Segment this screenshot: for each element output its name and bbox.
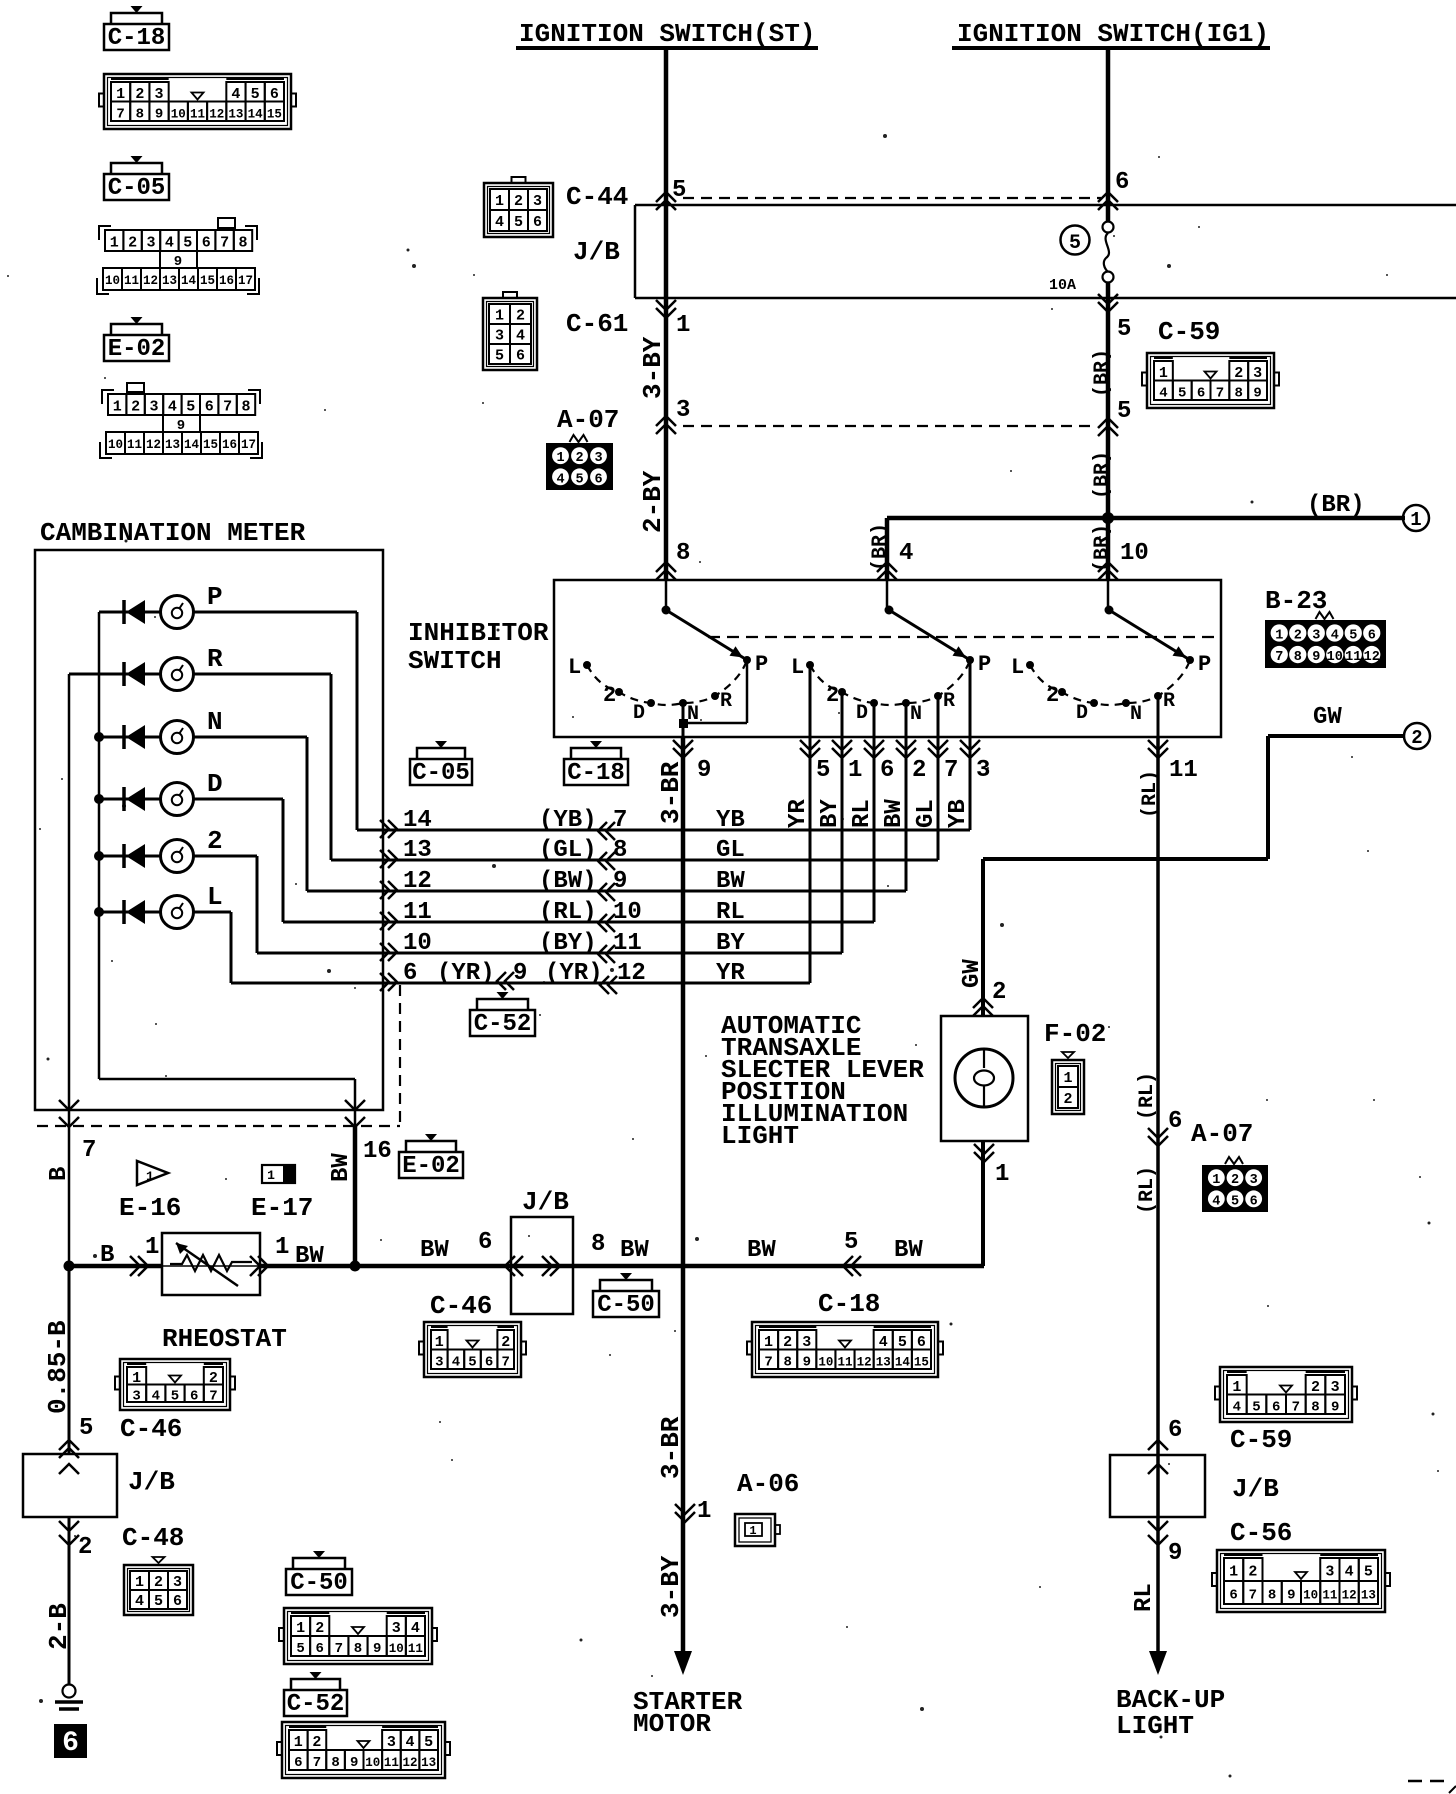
svg-text:6: 6: [485, 1354, 493, 1370]
svg-text:P: P: [755, 652, 768, 677]
svg-text:10: 10: [818, 1355, 833, 1369]
svg-text:RL: RL: [1131, 1583, 1158, 1612]
svg-text:15: 15: [203, 438, 218, 452]
svg-text:7: 7: [116, 106, 124, 122]
svg-text:2: 2: [603, 683, 616, 708]
svg-text:14: 14: [248, 107, 264, 121]
svg-text:6: 6: [316, 1641, 324, 1657]
svg-text:3-BR: 3-BR: [656, 1416, 686, 1479]
svg-text:12: 12: [143, 274, 158, 288]
svg-text:1: 1: [495, 193, 504, 210]
svg-text:YR: YR: [785, 799, 812, 828]
svg-text:7: 7: [1216, 385, 1224, 401]
svg-text:3: 3: [1325, 1564, 1334, 1581]
svg-text:LIGHT: LIGHT: [721, 1121, 799, 1151]
svg-text:C-50: C-50: [290, 1570, 348, 1597]
svg-text:E-16: E-16: [119, 1193, 181, 1223]
svg-text:5: 5: [468, 1354, 476, 1370]
svg-text:2: 2: [1046, 683, 1059, 708]
svg-text:5: 5: [424, 1734, 433, 1751]
svg-text:14: 14: [403, 807, 432, 834]
svg-text:1: 1: [749, 1524, 756, 1538]
svg-text:YR: YR: [716, 960, 745, 987]
svg-text:5: 5: [1117, 316, 1131, 343]
svg-text:6: 6: [516, 348, 525, 365]
svg-text:8: 8: [136, 106, 144, 122]
svg-text:BY: BY: [716, 930, 745, 957]
svg-text:0.85-B: 0.85-B: [43, 1320, 73, 1414]
svg-text:11: 11: [613, 930, 642, 957]
svg-text:17: 17: [238, 274, 253, 288]
svg-text:5: 5: [251, 86, 260, 103]
svg-text:6: 6: [190, 1388, 198, 1404]
svg-text:1: 1: [113, 399, 122, 416]
svg-text:11: 11: [1345, 650, 1361, 665]
svg-text:3: 3: [1253, 365, 1262, 382]
svg-text:1: 1: [1212, 1173, 1220, 1188]
svg-text:4: 4: [168, 399, 177, 416]
svg-text:12: 12: [209, 107, 224, 121]
svg-text:IGNITION SWITCH(ST): IGNITION SWITCH(ST): [519, 19, 815, 49]
svg-text:9: 9: [1287, 1588, 1295, 1604]
svg-text:C-46: C-46: [120, 1414, 182, 1444]
svg-text:A-07: A-07: [557, 405, 619, 435]
svg-text:7: 7: [1249, 1588, 1257, 1604]
svg-text:13: 13: [1361, 1589, 1376, 1603]
svg-text:6: 6: [403, 960, 417, 987]
svg-text:9: 9: [803, 1354, 811, 1370]
svg-text:13: 13: [876, 1355, 891, 1369]
svg-text:8: 8: [1311, 1399, 1319, 1415]
svg-text:(RL): (RL): [539, 899, 597, 926]
svg-text:3: 3: [173, 1574, 182, 1591]
svg-text:N: N: [910, 703, 922, 726]
svg-text:6: 6: [205, 399, 214, 416]
svg-text:9: 9: [1253, 385, 1261, 401]
svg-text:BY: BY: [817, 799, 844, 828]
svg-text:1: 1: [697, 1498, 711, 1525]
svg-text:7: 7: [335, 1641, 343, 1657]
svg-text:D: D: [856, 702, 868, 725]
svg-text:5: 5: [154, 1593, 163, 1610]
svg-text:6: 6: [202, 235, 211, 252]
svg-text:10: 10: [613, 899, 642, 926]
svg-text:1: 1: [764, 1334, 773, 1351]
svg-text:INHIBITOR: INHIBITOR: [408, 618, 549, 648]
svg-text:BW: BW: [328, 1153, 355, 1182]
svg-text:4: 4: [1212, 1194, 1220, 1209]
svg-text:1: 1: [116, 86, 125, 103]
svg-text:2: 2: [135, 86, 144, 103]
svg-text:BW: BW: [420, 1237, 449, 1264]
svg-text:GL: GL: [716, 837, 745, 864]
svg-text:YB: YB: [716, 807, 745, 834]
svg-text:3: 3: [392, 1620, 401, 1637]
svg-text:1: 1: [135, 1574, 144, 1591]
svg-text:12: 12: [617, 960, 646, 987]
svg-text:IGNITION SWITCH(IG1): IGNITION SWITCH(IG1): [957, 19, 1269, 49]
svg-text:3: 3: [435, 1354, 443, 1370]
svg-text:(RL): (RL): [1136, 1072, 1159, 1120]
svg-text:4: 4: [411, 1620, 420, 1637]
svg-text:2: 2: [207, 826, 223, 856]
svg-text:7: 7: [501, 1354, 509, 1370]
svg-text:4: 4: [231, 86, 240, 103]
svg-text:1: 1: [1229, 1564, 1238, 1581]
svg-text:4: 4: [879, 1334, 888, 1351]
svg-text:L: L: [1011, 655, 1024, 680]
svg-text:12: 12: [857, 1355, 872, 1369]
svg-text:C-48: C-48: [122, 1523, 184, 1553]
svg-text:2: 2: [516, 308, 525, 325]
svg-text:2: 2: [1248, 1564, 1257, 1581]
svg-text:4: 4: [556, 472, 564, 487]
svg-text:6: 6: [1168, 1417, 1182, 1444]
svg-text:8: 8: [354, 1641, 362, 1657]
svg-text:14: 14: [895, 1355, 911, 1369]
svg-text:BW: BW: [716, 868, 745, 895]
svg-text:3-BY: 3-BY: [656, 1555, 686, 1618]
svg-text:N: N: [1130, 703, 1142, 726]
svg-text:2: 2: [1231, 1173, 1239, 1188]
svg-text:1: 1: [275, 1234, 289, 1261]
svg-text:15: 15: [267, 107, 282, 121]
svg-text:14: 14: [184, 438, 200, 452]
svg-text:F-02: F-02: [1044, 1019, 1106, 1049]
svg-text:16: 16: [363, 1138, 392, 1165]
svg-text:9: 9: [1312, 650, 1320, 665]
svg-text:8: 8: [238, 235, 247, 252]
svg-text:3-BY: 3-BY: [638, 336, 668, 399]
svg-text:7: 7: [223, 399, 232, 416]
svg-text:8: 8: [241, 399, 250, 416]
svg-text:4: 4: [1233, 1399, 1241, 1415]
svg-text:BW: BW: [620, 1237, 649, 1264]
svg-text:3: 3: [146, 235, 155, 252]
svg-text:2: 2: [1234, 365, 1243, 382]
svg-text:E-02: E-02: [108, 336, 166, 363]
svg-text:2: 2: [783, 1334, 792, 1351]
svg-text:1: 1: [294, 1734, 303, 1751]
svg-text:1: 1: [1232, 1379, 1241, 1396]
svg-text:4: 4: [495, 214, 504, 231]
svg-text:5: 5: [514, 214, 523, 231]
svg-text:B: B: [100, 1242, 114, 1269]
svg-text:2: 2: [128, 235, 137, 252]
svg-text:(RL): (RL): [1136, 1166, 1159, 1214]
svg-text:1: 1: [1275, 628, 1283, 643]
svg-text:(BR): (BR): [1091, 349, 1114, 397]
svg-text:BW: BW: [881, 799, 908, 828]
svg-text:J/B: J/B: [1232, 1474, 1279, 1504]
svg-text:R: R: [207, 644, 223, 674]
svg-text:6: 6: [1168, 1108, 1182, 1135]
svg-text:SWITCH: SWITCH: [408, 646, 502, 676]
svg-text:3: 3: [155, 86, 164, 103]
svg-text:RL: RL: [716, 899, 745, 926]
svg-text:11: 11: [384, 1756, 399, 1770]
svg-text:(BY): (BY): [539, 930, 597, 957]
svg-text:2: 2: [312, 1734, 321, 1751]
svg-text:10A: 10A: [1049, 277, 1076, 294]
svg-text:11: 11: [403, 899, 432, 926]
svg-text:R: R: [720, 690, 732, 713]
svg-text:8: 8: [1235, 385, 1243, 401]
svg-text:P: P: [978, 652, 991, 677]
svg-text:3: 3: [132, 1388, 140, 1404]
svg-text:BW: BW: [295, 1243, 324, 1270]
svg-text:N: N: [207, 707, 223, 737]
svg-text:D: D: [207, 769, 223, 799]
svg-text:3-BR: 3-BR: [656, 761, 686, 824]
svg-text:4: 4: [165, 235, 174, 252]
svg-text:6: 6: [1250, 1194, 1258, 1209]
svg-text:8: 8: [613, 837, 627, 864]
svg-text:6: 6: [1197, 385, 1205, 401]
svg-text:4: 4: [135, 1593, 144, 1610]
svg-text:5: 5: [1349, 628, 1357, 643]
svg-text:3: 3: [976, 757, 990, 784]
svg-text:1: 1: [267, 1168, 275, 1183]
svg-text:C-18: C-18: [108, 25, 166, 52]
svg-text:7: 7: [764, 1354, 772, 1370]
svg-text:3: 3: [676, 397, 690, 424]
svg-text:3: 3: [802, 1334, 811, 1351]
svg-text:7: 7: [209, 1388, 217, 1404]
svg-text:5: 5: [296, 1641, 304, 1657]
svg-text:10: 10: [403, 930, 432, 957]
svg-text:11: 11: [127, 438, 142, 452]
svg-text:9: 9: [697, 757, 711, 784]
svg-text:YB: YB: [945, 799, 972, 828]
svg-text:5: 5: [898, 1334, 907, 1351]
svg-text:2: 2: [315, 1620, 324, 1637]
svg-text:LIGHT: LIGHT: [1116, 1711, 1194, 1741]
svg-text:C-59: C-59: [1158, 317, 1220, 347]
svg-text:8: 8: [331, 1755, 339, 1771]
svg-text:10: 10: [1303, 1589, 1318, 1603]
svg-text:B: B: [46, 1167, 73, 1181]
svg-text:8: 8: [1268, 1588, 1276, 1604]
svg-text:11: 11: [124, 274, 139, 288]
svg-text:11: 11: [190, 107, 205, 121]
svg-text:7: 7: [1292, 1399, 1300, 1415]
svg-text:16: 16: [219, 274, 234, 288]
svg-text:B-23: B-23: [1265, 586, 1327, 616]
svg-text:11: 11: [408, 1642, 423, 1656]
svg-text:7: 7: [313, 1755, 321, 1771]
svg-text:5: 5: [844, 1229, 858, 1256]
svg-text:C-46: C-46: [430, 1291, 492, 1321]
svg-text:9: 9: [155, 106, 163, 122]
svg-text:1: 1: [1410, 509, 1421, 531]
svg-text:MOTOR: MOTOR: [633, 1709, 711, 1739]
svg-text:(BR): (BR): [1307, 492, 1365, 519]
svg-text:1: 1: [495, 308, 504, 325]
svg-text:6: 6: [270, 86, 279, 103]
svg-text:GW: GW: [959, 959, 986, 988]
svg-text:2: 2: [501, 1334, 510, 1351]
svg-text:E-17: E-17: [251, 1193, 313, 1223]
svg-text:2: 2: [78, 1534, 92, 1561]
svg-text:P: P: [1198, 652, 1211, 677]
svg-text:6: 6: [917, 1334, 926, 1351]
svg-text:3: 3: [149, 399, 158, 416]
svg-text:C-61: C-61: [566, 309, 628, 339]
svg-text:13: 13: [403, 837, 432, 864]
svg-text:6: 6: [294, 1755, 302, 1771]
svg-text:2: 2: [826, 683, 839, 708]
svg-text:R: R: [1163, 690, 1175, 713]
svg-text:(YB): (YB): [539, 807, 597, 834]
svg-text:5: 5: [575, 472, 583, 487]
svg-text:L: L: [568, 655, 581, 680]
svg-text:13: 13: [421, 1756, 436, 1770]
svg-text:8: 8: [1294, 650, 1302, 665]
svg-text:12: 12: [1364, 650, 1380, 665]
svg-text:A-07: A-07: [1191, 1119, 1253, 1149]
svg-text:4: 4: [1159, 385, 1167, 401]
svg-text:3: 3: [495, 328, 504, 345]
svg-text:10: 10: [1327, 650, 1343, 665]
svg-text:10: 10: [105, 274, 120, 288]
svg-text:1: 1: [110, 235, 119, 252]
svg-text:7: 7: [944, 757, 958, 784]
svg-text:BW: BW: [894, 1237, 923, 1264]
svg-text:6: 6: [1115, 169, 1129, 196]
svg-text:D: D: [1076, 702, 1088, 725]
svg-text:12: 12: [403, 1756, 418, 1770]
svg-text:1: 1: [1159, 365, 1168, 382]
svg-text:10: 10: [389, 1642, 404, 1656]
svg-text:CAMBINATION METER: CAMBINATION METER: [40, 518, 306, 548]
svg-text:5: 5: [1364, 1564, 1373, 1581]
svg-text:4: 4: [516, 328, 525, 345]
svg-text:C-05: C-05: [412, 760, 470, 787]
svg-text:4: 4: [1331, 628, 1339, 643]
svg-text:10: 10: [108, 438, 123, 452]
svg-text:D: D: [633, 702, 645, 725]
svg-text:(BW): (BW): [539, 868, 597, 895]
svg-text:1: 1: [146, 1169, 154, 1184]
svg-text:10: 10: [171, 107, 186, 121]
svg-text:(GL): (GL): [539, 837, 597, 864]
svg-text:5: 5: [186, 399, 195, 416]
svg-text:5: 5: [1069, 232, 1081, 255]
svg-text:13: 13: [165, 438, 180, 452]
svg-text:L: L: [791, 655, 804, 680]
svg-text:5: 5: [171, 1388, 179, 1404]
svg-text:3: 3: [387, 1734, 396, 1751]
svg-text:9: 9: [513, 960, 527, 987]
svg-text:5: 5: [1117, 398, 1131, 425]
svg-text:6: 6: [1229, 1588, 1237, 1604]
svg-text:8: 8: [783, 1354, 791, 1370]
svg-text:2: 2: [1063, 1091, 1072, 1108]
svg-text:5: 5: [79, 1415, 93, 1442]
svg-text:1: 1: [145, 1234, 159, 1261]
svg-text:5: 5: [1231, 1194, 1239, 1209]
svg-text:L: L: [207, 882, 223, 912]
svg-text:5: 5: [1178, 385, 1186, 401]
svg-text:16: 16: [222, 438, 237, 452]
svg-text:6: 6: [478, 1229, 492, 1256]
svg-text:(YR): (YR): [437, 960, 495, 987]
svg-text:3: 3: [533, 193, 542, 210]
svg-text:5: 5: [816, 757, 830, 784]
svg-text:1: 1: [676, 312, 690, 339]
svg-text:(BR): (BR): [1091, 451, 1114, 499]
svg-text:12: 12: [146, 438, 161, 452]
svg-text:6: 6: [533, 214, 542, 231]
svg-text:1: 1: [1063, 1070, 1072, 1087]
svg-text:2: 2: [154, 1574, 163, 1591]
svg-text:4: 4: [899, 540, 913, 567]
svg-text:J/B: J/B: [522, 1187, 569, 1217]
svg-text:C-44: C-44: [566, 182, 628, 212]
svg-text:4: 4: [452, 1354, 460, 1370]
svg-text:11: 11: [1169, 757, 1198, 784]
svg-text:7: 7: [1275, 650, 1283, 665]
svg-text:2: 2: [1311, 1379, 1320, 1396]
svg-text:3: 3: [594, 451, 602, 466]
svg-text:J/B: J/B: [573, 237, 620, 267]
svg-text:2: 2: [514, 193, 523, 210]
svg-text:6: 6: [62, 1728, 79, 1759]
svg-text:13: 13: [162, 274, 177, 288]
svg-text:8: 8: [591, 1231, 605, 1258]
svg-text:11: 11: [1322, 1589, 1337, 1603]
svg-text:5: 5: [1252, 1399, 1260, 1415]
svg-text:2-BY: 2-BY: [638, 470, 668, 533]
svg-text:6: 6: [1368, 628, 1376, 643]
svg-text:4: 4: [1345, 1564, 1354, 1581]
svg-text:BW: BW: [747, 1237, 776, 1264]
svg-text:J/B: J/B: [128, 1467, 175, 1497]
svg-text:5: 5: [183, 235, 192, 252]
svg-text:C-52: C-52: [287, 1691, 345, 1718]
svg-text:3: 3: [1331, 1379, 1340, 1396]
svg-text:9: 9: [1168, 1540, 1182, 1567]
svg-text:C-18: C-18: [818, 1289, 880, 1319]
svg-text:10: 10: [365, 1756, 380, 1770]
svg-text:10: 10: [1120, 540, 1149, 567]
svg-text:C-18: C-18: [567, 760, 625, 787]
svg-text:1: 1: [435, 1334, 444, 1351]
svg-text:9: 9: [1331, 1399, 1339, 1415]
svg-text:12: 12: [403, 868, 432, 895]
svg-text:2: 2: [992, 979, 1006, 1006]
svg-text:9: 9: [373, 1641, 381, 1657]
svg-text:C-59: C-59: [1230, 1425, 1292, 1455]
svg-text:14: 14: [181, 274, 197, 288]
svg-text:2: 2: [575, 451, 583, 466]
svg-text:7: 7: [613, 807, 627, 834]
svg-text:13: 13: [228, 107, 243, 121]
svg-text:C-50: C-50: [597, 1292, 655, 1319]
svg-text:2: 2: [912, 757, 926, 784]
svg-text:P: P: [207, 582, 223, 612]
svg-text:A-06: A-06: [737, 1469, 799, 1499]
svg-text:R: R: [943, 690, 955, 713]
svg-text:12: 12: [1342, 1589, 1357, 1603]
svg-text:2: 2: [1411, 727, 1422, 749]
svg-text:GL: GL: [913, 799, 940, 828]
svg-text:6: 6: [880, 757, 894, 784]
svg-text:7: 7: [220, 235, 229, 252]
svg-text:15: 15: [200, 274, 215, 288]
svg-text:1: 1: [296, 1620, 305, 1637]
